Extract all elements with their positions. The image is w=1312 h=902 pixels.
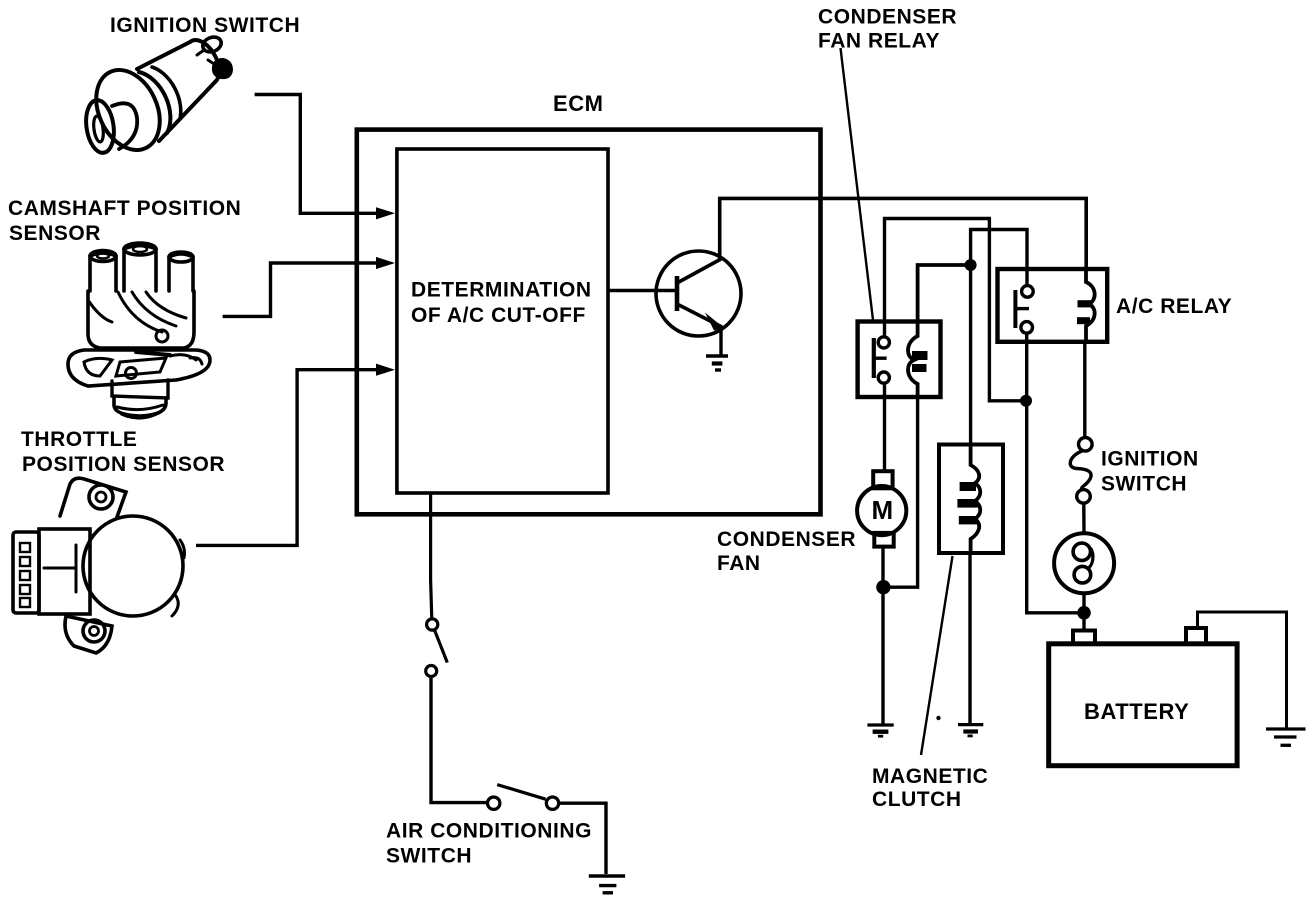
condenser fan relay K1 box <box>858 322 941 398</box>
svg-text:M: M <box>872 495 894 525</box>
camshaft position sensor (distributor) illustration <box>68 243 210 418</box>
wire A/C relay switch bottom to CF relay switch top <box>885 219 1027 401</box>
junction dot (motor/coil return) <box>876 580 890 594</box>
svg-text:CLUTCH: CLUTCH <box>872 788 962 811</box>
condenser fan relay coil <box>908 322 918 397</box>
wire emitter to ground <box>719 327 722 355</box>
wire base (determination box to transistor) <box>608 289 676 293</box>
leader line condenser fan relay label <box>841 48 874 320</box>
svg-text:CONDENSER: CONDENSER <box>818 6 957 29</box>
svg-text:THROTTLE: THROTTLE <box>21 428 137 451</box>
ground (magnetic clutch) <box>958 725 983 736</box>
svg-text:BATTERY: BATTERY <box>1084 699 1189 724</box>
wire clutch to ground <box>968 555 971 724</box>
condenser fan relay contact <box>874 337 890 383</box>
throttle position sensor illustration <box>13 478 185 653</box>
junction dot (y=265) <box>965 259 977 271</box>
wire motor to ground <box>881 547 884 724</box>
ground (transistor emitter) <box>706 356 728 370</box>
transistor Q1 <box>656 251 741 336</box>
svg-text:ECM: ECM <box>553 91 604 116</box>
magnetic clutch box <box>939 445 1003 554</box>
ground (battery) <box>1266 729 1306 745</box>
svg-text:OF A/C CUT-OFF: OF A/C CUT-OFF <box>411 304 586 327</box>
wire CF relay coil top <box>918 265 968 322</box>
svg-text:MAGNETIC: MAGNETIC <box>872 765 988 788</box>
ignition switch (right) contact symbol <box>1070 438 1092 534</box>
svg-text:DETERMINATION: DETERMINATION <box>411 279 592 302</box>
ignition switch key cylinder circle <box>1054 533 1114 593</box>
junction dot (battery positive node) <box>1077 606 1091 620</box>
svg-text:CONDENSER: CONDENSER <box>717 528 856 551</box>
air conditioning switch S1 (lower contact) <box>488 785 559 810</box>
svg-text:FAN: FAN <box>717 552 761 575</box>
wire determination box to A/C switch <box>431 493 432 619</box>
arrowhead input 2 <box>376 257 395 269</box>
arrowhead input 3 <box>376 364 395 376</box>
svg-text:A/C RELAY: A/C RELAY <box>1116 295 1232 318</box>
wire ignition switch to ECM input 1 <box>255 95 388 214</box>
wire camshaft sensor to ECM input 2 <box>223 263 388 316</box>
svg-text:IGNITION SWITCH: IGNITION SWITCH <box>110 14 300 37</box>
wire A/C relay switch top to magnetic clutch <box>971 230 1027 445</box>
scan speck near clutch label <box>936 716 940 720</box>
ECM box <box>357 130 821 515</box>
air conditioning switch S1 (upper contact) <box>426 619 448 677</box>
wire A/C switch vertical to horizontal contact <box>431 677 487 803</box>
battery left post <box>1073 631 1095 644</box>
svg-text:SENSOR: SENSOR <box>9 222 101 245</box>
wire collector to A/C relay coil <box>720 198 1086 272</box>
ground (condenser fan) <box>867 725 893 736</box>
battery BT1 <box>1049 644 1237 766</box>
A/C relay contact <box>1015 286 1033 334</box>
wire CF relay switch bottom to condenser fan motor <box>883 384 886 470</box>
arrowhead input 1 <box>376 207 395 219</box>
leader line magnetic clutch label <box>921 556 953 755</box>
ground (A/C switch) <box>589 876 625 893</box>
battery right post <box>1186 628 1206 644</box>
svg-text:FAN RELAY: FAN RELAY <box>818 30 940 53</box>
A/C relay K2 box <box>998 269 1108 342</box>
svg-text:SWITCH: SWITCH <box>386 845 472 868</box>
svg-text:IGNITION: IGNITION <box>1101 448 1199 471</box>
svg-text:SWITCH: SWITCH <box>1101 473 1187 496</box>
transistor emitter arrowhead <box>705 313 724 331</box>
junction dot (y=400.8) <box>1020 395 1032 407</box>
wire ignition switch to battery positive <box>1082 593 1085 630</box>
ignition switch key cylinder illustration <box>83 34 231 160</box>
wire throttle sensor to ECM input 3 <box>196 370 388 546</box>
condenser fan motor M1 <box>857 471 906 546</box>
svg-text:CAMSHAFT POSITION: CAMSHAFT POSITION <box>8 197 241 220</box>
wire A/C relay switch bottom branch to battery node <box>1027 333 1084 613</box>
wire A/C relay coil bottom to ignition switch <box>1083 340 1086 439</box>
wire CF relay coil bottom to junction <box>884 397 918 587</box>
magnetic clutch coil L1 <box>971 445 981 555</box>
wire A/C switch to ground <box>559 803 606 874</box>
svg-text:AIR CONDITIONING: AIR CONDITIONING <box>386 820 592 843</box>
svg-text:POSITION SENSOR: POSITION SENSOR <box>22 453 225 476</box>
A/C relay coil <box>1086 269 1095 342</box>
determination box <box>397 149 608 493</box>
wire battery negative to ground <box>1198 612 1287 728</box>
